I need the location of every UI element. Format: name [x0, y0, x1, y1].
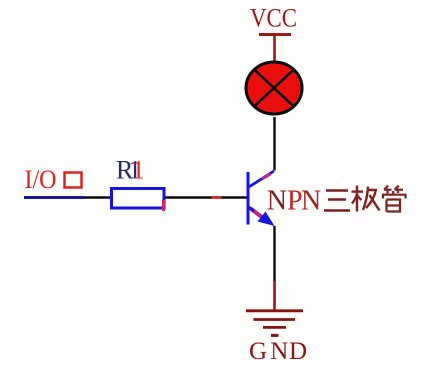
svg-text:N: N [301, 186, 321, 217]
svg-text:N: N [270, 338, 288, 365]
svg-text:D: D [289, 338, 307, 365]
svg-text:1: 1 [132, 156, 145, 185]
svg-text:I/O: I/O [25, 165, 57, 194]
svg-text:N: N [267, 186, 287, 217]
svg-text:VCC: VCC [250, 4, 297, 33]
svg-text:G: G [249, 338, 267, 365]
